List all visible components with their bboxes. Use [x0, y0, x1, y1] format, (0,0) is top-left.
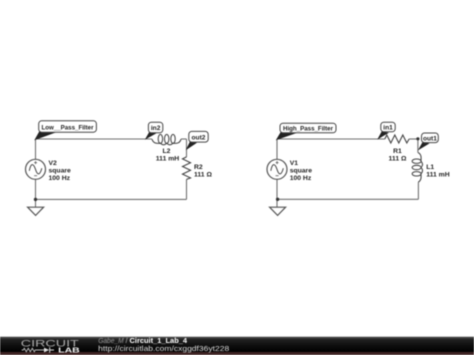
- svg-text:111 Ω: 111 Ω: [194, 171, 212, 178]
- svg-text:High_Pass_Filter: High_Pass_Filter: [283, 126, 333, 133]
- svg-text:111 Ω: 111 Ω: [389, 156, 407, 163]
- svg-text:LAB: LAB: [58, 345, 80, 354]
- svg-text:Low__Pass_Filter: Low__Pass_Filter: [42, 124, 94, 131]
- svg-text:square: square: [290, 168, 313, 175]
- svg-text:out2: out2: [192, 134, 206, 141]
- svg-text:100 Hz: 100 Hz: [49, 175, 71, 182]
- svg-text:Gabe_M / Circuit_1_Lab_4: Gabe_M / Circuit_1_Lab_4: [98, 338, 187, 345]
- svg-text:out1: out1: [423, 135, 437, 142]
- svg-text:R1: R1: [393, 148, 402, 155]
- svg-text:111 mH: 111 mH: [156, 156, 180, 163]
- svg-text:100 Hz: 100 Hz: [290, 175, 312, 182]
- svg-text:V1: V1: [290, 160, 299, 167]
- svg-text:L1: L1: [426, 164, 434, 171]
- svg-text:L2: L2: [163, 148, 171, 155]
- svg-text:111 mH: 111 mH: [426, 171, 450, 178]
- svg-text:in2: in2: [151, 125, 161, 132]
- svg-text:V2: V2: [49, 160, 58, 167]
- svg-text:square: square: [49, 168, 72, 175]
- svg-text:R2: R2: [194, 164, 203, 171]
- svg-text:http://circuitlab.com/cxggdf36: http://circuitlab.com/cxggdf36yt228: [98, 346, 229, 353]
- svg-text:in1: in1: [383, 125, 393, 132]
